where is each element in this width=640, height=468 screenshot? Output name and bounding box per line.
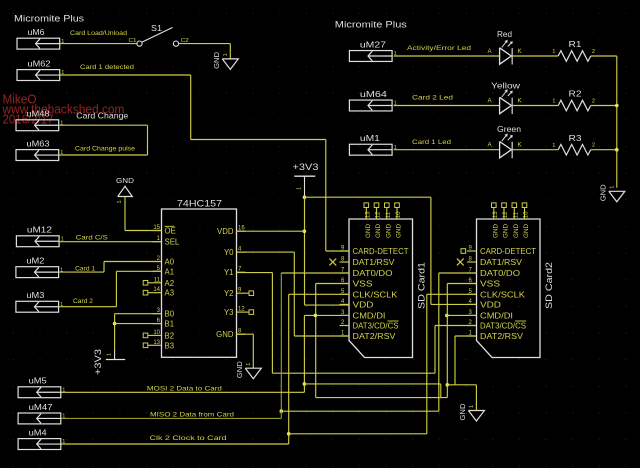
svg-text:15: 15 — [153, 225, 160, 231]
power +3V3 (top) — [293, 162, 319, 196]
svg-text:+3V3: +3V3 — [93, 349, 103, 375]
wire uM48 to uM63 — [59, 124, 148, 126]
svg-text:10: 10 — [396, 211, 402, 218]
connector uM47 — [18, 402, 65, 424]
connector uM12 — [16, 225, 63, 247]
svg-text:1: 1 — [246, 363, 252, 366]
junction +3V3 node — [303, 195, 307, 199]
junction MOSI/VSS area node — [446, 383, 450, 387]
wire R3 to GND bus — [591, 149, 617, 151]
svg-text:GND: GND — [492, 224, 499, 238]
connector uM48 — [16, 109, 63, 131]
connector uM1 — [349, 133, 396, 155]
svg-text:uM5: uM5 — [29, 376, 47, 386]
wire +3V3 to SD1 VDD — [305, 304, 350, 306]
svg-text:Card 1 detected: Card 1 detected — [80, 64, 134, 71]
wire IC VDD pin 16 to +3V3 — [237, 230, 305, 232]
junction at R3 output — [615, 148, 619, 152]
svg-text:GND: GND — [365, 224, 372, 238]
svg-text:11: 11 — [386, 211, 392, 218]
svg-text:Y3: Y3 — [224, 308, 234, 317]
wire LED cathode to R1 — [513, 55, 559, 57]
svg-text:A3: A3 — [165, 289, 175, 298]
LED Green — [488, 124, 523, 158]
svg-text:GND: GND — [375, 224, 382, 238]
wire SD1 CLK row — [289, 293, 349, 295]
svg-text:Yellow: Yellow — [491, 81, 521, 91]
svg-text:S1: S1 — [151, 23, 162, 33]
ground (SD cards) — [458, 404, 485, 422]
wire SD2 VDD from +3V3 rail — [430, 197, 432, 304]
svg-text:uM64: uM64 — [360, 89, 387, 99]
svg-text:R2: R2 — [569, 89, 582, 99]
svg-text:GND: GND — [235, 361, 244, 378]
junction at IC VDD tap — [303, 229, 307, 233]
svg-text:CMD/DI: CMD/DI — [480, 312, 513, 321]
svg-text:uM27: uM27 — [360, 39, 386, 49]
svg-text:uM2: uM2 — [26, 256, 44, 266]
wire MISO drop to uM47 — [280, 411, 282, 418]
wire SD2 CMD stub — [447, 314, 477, 316]
wire node to ground (SD area) — [447, 384, 476, 386]
svg-text:DAT3/CD/CS: DAT3/CD/CS — [353, 322, 399, 331]
switch S1 — [129, 23, 189, 46]
svg-text:SD Card2: SD Card2 — [544, 262, 554, 309]
svg-text:1: 1 — [297, 187, 303, 190]
wire uM64 to LED anode — [394, 105, 500, 107]
resistor R3 — [552, 133, 595, 155]
wire SD1 DAT0/DO (MISO) — [281, 272, 349, 274]
connector uM2 — [16, 256, 63, 278]
junction SD2 CMD — [445, 314, 449, 318]
wire uM62 to SD Card1 CARD-DETECT — [60, 74, 191, 76]
svg-text:1: 1 — [552, 99, 555, 105]
svg-text:CLK/SCLK: CLK/SCLK — [353, 291, 399, 300]
svg-text:uM63: uM63 — [27, 138, 50, 148]
IC SD Card1 socket — [340, 203, 427, 358]
ground (IC 74HC157) — [235, 361, 261, 379]
ground (switch S1) — [212, 52, 239, 70]
svg-text:uM62: uM62 — [28, 58, 51, 68]
wire R1 to GND bus — [591, 55, 617, 57]
svg-text:R1: R1 — [569, 39, 582, 49]
resistor R1 — [552, 39, 595, 61]
svg-text:B1: B1 — [165, 320, 175, 329]
svg-text:uM6: uM6 — [28, 27, 45, 37]
svg-text:Red: Red — [497, 29, 512, 39]
svg-text:1: 1 — [62, 439, 65, 445]
svg-text:A1: A1 — [165, 267, 175, 276]
svg-text:10: 10 — [524, 211, 530, 218]
svg-text:DAT0/DO: DAT0/DO — [480, 269, 520, 278]
ground (LED bus) — [598, 184, 625, 202]
svg-text:11: 11 — [154, 277, 161, 283]
svg-text:2: 2 — [592, 49, 595, 55]
svg-text:CMD/DI: CMD/DI — [353, 312, 386, 321]
wire +3V3 down to IC VDD and SD Card1 VDD — [304, 197, 306, 305]
wire VSS bus lower horizontal — [316, 397, 448, 399]
svg-text:Card Load/Unload: Card Load/Unload — [70, 30, 127, 37]
wire MOSI to SD2 CMD riser — [304, 383, 440, 385]
svg-text:DAT1/RSV: DAT1/RSV — [353, 258, 396, 267]
wire uM1 to LED anode — [394, 149, 500, 151]
svg-text:VDD: VDD — [480, 301, 501, 310]
svg-text:1: 1 — [117, 201, 123, 204]
wire SD2 VSS descend — [447, 283, 476, 285]
svg-text:1: 1 — [107, 353, 113, 356]
svg-text:Activity/Error Led: Activity/Error Led — [407, 45, 471, 52]
svg-text:VSS: VSS — [480, 280, 500, 289]
wire Y1 toward SD2 DAT3 — [237, 272, 273, 274]
svg-text:GND: GND — [396, 224, 403, 238]
connector uM64 — [349, 89, 396, 111]
svg-text:GND: GND — [458, 404, 467, 421]
svg-text:B2: B2 — [165, 331, 175, 340]
LED Red — [488, 29, 523, 65]
svg-text:CARD-DETECT: CARD-DETECT — [353, 247, 409, 256]
svg-text:uM12: uM12 — [27, 225, 52, 235]
wire uM12 to SEL — [59, 241, 161, 243]
svg-text:74HC157: 74HC157 — [177, 198, 222, 208]
svg-text:uM3: uM3 — [26, 290, 44, 300]
wire LED GND bus vertical — [616, 56, 618, 188]
svg-text:OE: OE — [165, 227, 176, 236]
svg-text:12: 12 — [376, 211, 382, 218]
wire MOSI riser to SD1 CMD/DI — [303, 315, 305, 392]
svg-text:GND: GND — [116, 176, 134, 185]
svg-text:MOSI 2 Data to Card: MOSI 2 Data to Card — [147, 385, 222, 392]
ground (up, at 74HC157 OE) — [116, 176, 134, 204]
svg-text:Y0: Y0 — [224, 248, 234, 257]
svg-text:CLK/SCLK: CLK/SCLK — [480, 291, 526, 300]
svg-text:Micromite Plus: Micromite Plus — [335, 20, 408, 30]
wire MISO bus to SD2 DAT0 — [281, 410, 439, 412]
svg-text:Card 1: Card 1 — [75, 266, 95, 273]
svg-text:2: 2 — [592, 143, 595, 149]
svg-text:Micromite Plus: Micromite Plus — [14, 14, 85, 24]
svg-text:Y2: Y2 — [224, 289, 234, 298]
svg-text:GND: GND — [212, 52, 221, 69]
svg-text:DAT0/DO: DAT0/DO — [353, 269, 393, 278]
svg-text:Card Change: Card Change — [76, 111, 128, 121]
junction at B1 tap — [113, 322, 117, 326]
wire IC GND pin 8 to ground — [237, 333, 254, 335]
svg-text:GND: GND — [216, 330, 234, 339]
svg-text:CARD-DETECT: CARD-DETECT — [480, 247, 536, 256]
wire S1 pin C2 to ground — [179, 43, 231, 45]
svg-text:MISO 2 Data from Card: MISO 2 Data from Card — [150, 412, 234, 419]
svg-text:1: 1 — [62, 387, 65, 393]
wire uM63 — [59, 154, 148, 156]
svg-text:SEL: SEL — [165, 238, 180, 247]
svg-text:A2: A2 — [165, 279, 175, 288]
wire Y0 to SD1 DAT2/RSV — [237, 251, 295, 253]
resistor R2 — [552, 89, 595, 111]
wire SD1 VSS descend — [316, 283, 349, 285]
wire tap to B1 — [115, 323, 162, 325]
wire +3V3 rail to SD Card2 VDD riser — [305, 196, 431, 198]
svg-text:13: 13 — [153, 340, 160, 346]
svg-text:1: 1 — [552, 143, 555, 149]
wire R2 to GND bus — [591, 105, 617, 107]
wire SD2 DAT2/RSV descend — [455, 335, 477, 337]
LED Yellow — [488, 81, 523, 115]
svg-text:A0: A0 — [165, 258, 175, 267]
svg-text:10: 10 — [153, 330, 160, 336]
junction MOSI node — [303, 382, 307, 386]
svg-text:SD Card1: SD Card1 — [417, 262, 427, 309]
connector uM63 — [16, 138, 63, 160]
wire LED cathode to R2 — [513, 105, 559, 107]
wire +3V3 to B0 — [114, 314, 116, 350]
svg-text:2: 2 — [592, 98, 595, 104]
IC SD Card2 socket — [467, 203, 554, 358]
svg-text:VDD: VDD — [353, 301, 374, 310]
svg-text:Card 2 Led: Card 2 Led — [412, 95, 453, 102]
junction SD1 CMD — [314, 314, 318, 318]
op IC U1 74HC157 — [148, 198, 249, 357]
wire uM4 to CLK bus — [61, 443, 289, 445]
junction CLK bus — [287, 432, 291, 436]
wire uM2 to A0 — [59, 271, 104, 273]
no-connect squares on IC pins A2 A3 B2 B3 — [143, 281, 148, 286]
connector uM27 — [349, 39, 396, 61]
svg-text:DAT2/RSV: DAT2/RSV — [353, 332, 397, 341]
no-connect squares on IC pins Y2 Y3 — [249, 291, 254, 296]
svg-text:12: 12 — [238, 307, 245, 313]
connector uM5 — [18, 376, 65, 398]
svg-text:DAT3/CD/CS: DAT3/CD/CS — [480, 322, 526, 331]
svg-text:1: 1 — [223, 53, 229, 56]
svg-text:+3V3: +3V3 — [293, 162, 319, 172]
svg-text:Green: Green — [497, 124, 521, 134]
svg-text:uM1: uM1 — [360, 133, 380, 143]
svg-text:C1: C1 — [129, 38, 137, 44]
svg-text:DAT2/RSV: DAT2/RSV — [480, 332, 524, 341]
connector uM4 — [18, 427, 65, 449]
svg-text:Card Change pulse: Card Change pulse — [75, 145, 135, 152]
svg-text:uM4: uM4 — [29, 427, 47, 437]
svg-text:VDD: VDD — [217, 227, 234, 236]
wire LED cathode to R3 — [513, 149, 559, 151]
svg-text:13: 13 — [366, 211, 372, 218]
connector uM3 — [16, 290, 63, 312]
svg-text:GND: GND — [598, 184, 607, 201]
junction at R2 output — [615, 104, 619, 108]
connector uM62 — [17, 58, 64, 80]
svg-text:GND: GND — [503, 224, 510, 238]
svg-text:14: 14 — [153, 287, 160, 293]
svg-text:VSS: VSS — [353, 280, 373, 289]
svg-text:uM48: uM48 — [27, 109, 50, 119]
svg-text:1: 1 — [552, 49, 555, 55]
svg-text:Card C/S: Card C/S — [76, 235, 109, 242]
svg-text:GND: GND — [385, 224, 392, 238]
wire uM27 to LED anode — [394, 55, 500, 57]
svg-text:Clk 2 Clock to Card: Clk 2 Clock to Card — [150, 435, 227, 442]
svg-text:GND: GND — [523, 224, 530, 238]
wire uM6 to S1 pin C1 — [60, 43, 137, 45]
svg-text:1: 1 — [469, 405, 475, 408]
svg-text:Y1: Y1 — [224, 268, 234, 277]
svg-text:B0: B0 — [165, 310, 175, 319]
svg-text:uM47: uM47 — [29, 402, 53, 412]
junction MISO node — [280, 409, 284, 413]
svg-text:1: 1 — [610, 186, 616, 189]
svg-text:Card 1 Led: Card 1 Led — [412, 139, 451, 146]
connector uM6 — [17, 27, 64, 49]
svg-text:11: 11 — [514, 211, 520, 218]
svg-text:Card 2: Card 2 — [73, 298, 93, 305]
svg-text:12: 12 — [503, 211, 509, 218]
svg-text:DAT1/RSV: DAT1/RSV — [480, 258, 523, 267]
svg-text:GND: GND — [513, 224, 520, 238]
svg-text:1: 1 — [62, 414, 65, 420]
svg-text:13: 13 — [493, 211, 499, 218]
wire ground to OE pin 15 — [124, 197, 126, 231]
svg-text:R3: R3 — [569, 133, 582, 143]
wire uM5 MOSI row — [61, 391, 305, 393]
wire uM3 to A1 — [59, 306, 117, 308]
svg-text:B3: B3 — [165, 341, 175, 350]
wire CLK bus to SD2 CLK — [289, 433, 427, 435]
watermark MikeO www.thebackshed.com 2016/2/17 — [2, 93, 125, 127]
power +3V3 (left, rotated) — [93, 349, 125, 375]
